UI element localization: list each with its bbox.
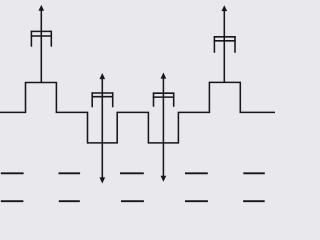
arrow A1: upward flux arrow from mesa 1 — [38, 5, 44, 83]
arrow A4: double-headed arrow in trench 2 — [161, 73, 167, 182]
grid symbol G1 on arrow A1 (double bar with legs) — [31, 31, 52, 47]
dashed line row 1 — [1, 172, 265, 174]
dashed line row 2 — [1, 200, 265, 202]
grid symbol G2 on arrow A2 — [214, 36, 236, 53]
arrow A2: upward flux arrow from mesa 2 — [221, 5, 227, 82]
grid symbol G4 on arrow A4 — [153, 93, 175, 107]
arrow A3: double-headed arrow in trench 1 — [99, 73, 105, 184]
grid symbol G3 on arrow A3 — [92, 92, 114, 107]
wire: corrugated surface profile (mesas and trenches) — [0, 82, 275, 143]
